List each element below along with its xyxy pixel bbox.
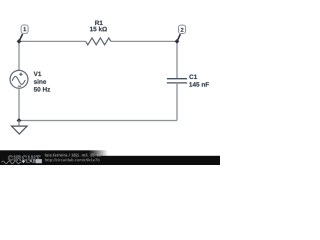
capacitor C1 plates [167, 79, 187, 83]
label C1 [189, 75, 197, 80]
label 50 Hz (frequency of V1) [34, 87, 50, 92]
node 2 (junction dot, leader line, label bubble) [175, 25, 186, 44]
wire: bottom rail [19, 120, 177, 122]
node 1 (junction dot, leader line, label bubble) [17, 25, 29, 44]
wire: top rail right segment (R1 to node 2) [111, 40, 177, 42]
watermark text line 1 (user / circuit id) [45, 153, 101, 157]
voltage source V1 (sine source symbol) [10, 70, 28, 88]
wire: right vertical lower (C1 to bottom rail) [176, 83, 178, 121]
label R1 [95, 21, 103, 25]
wire: right vertical upper (node 2 to C1) [176, 41, 178, 78]
wire: left vertical lower (V1 to ground junction) [18, 88, 20, 120]
resistor R1 zigzag [86, 38, 111, 45]
logo arrow diamond [22, 160, 26, 163]
watermark bar (full width, bottom) [0, 156, 220, 165]
logo text CIRCUIT [8, 156, 40, 161]
logo text LAB [26, 159, 36, 162]
wire: top rail left segment (node 1 to R1) [19, 40, 86, 42]
wire: left vertical upper (node 1 to V1) [18, 41, 20, 70]
wire: ground stub [18, 121, 20, 127]
ground symbol [12, 126, 28, 134]
watermark text line 2 (url) [45, 158, 100, 162]
junction dot at ground node [17, 118, 22, 123]
logo waveform squiggle [2, 161, 22, 164]
label 145 nF (value of C1) [189, 82, 209, 86]
label V1 [34, 72, 42, 76]
label 15 kΩ (value of R1) [90, 27, 107, 32]
logo block after LAB [36, 159, 42, 163]
label sine (type of V1) [34, 79, 46, 84]
